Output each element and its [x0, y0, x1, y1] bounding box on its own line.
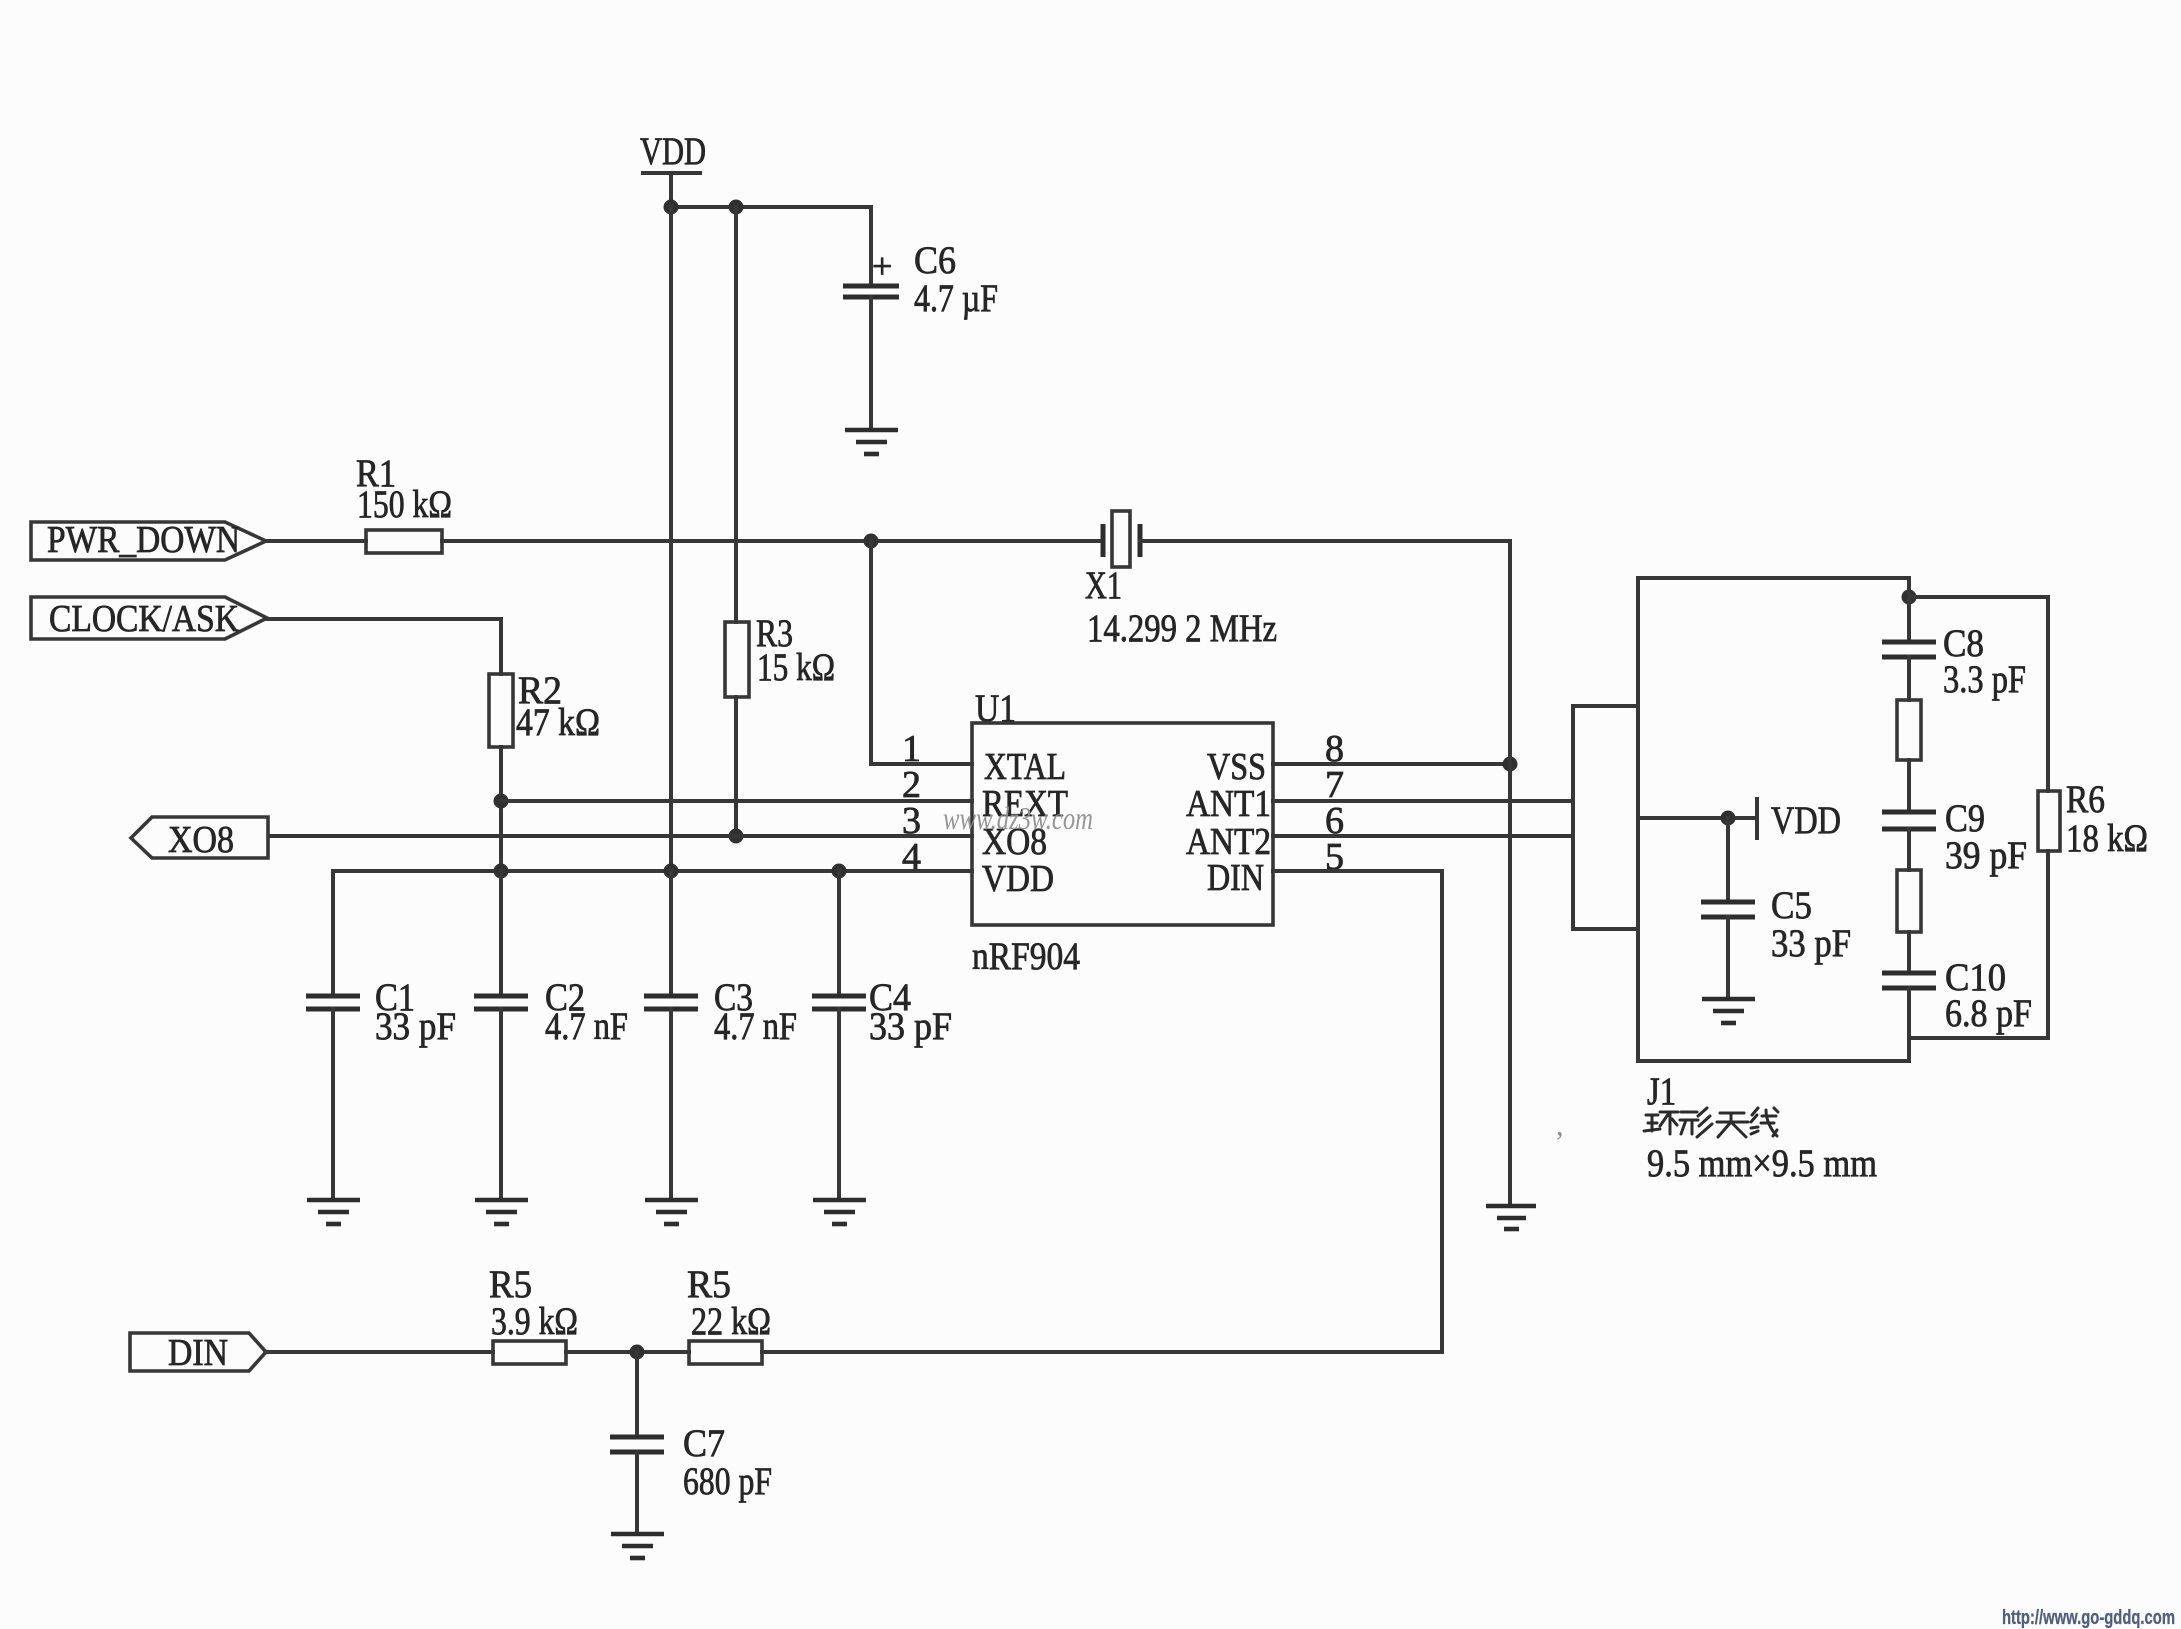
ground (X1/VSS rail) [1486, 1206, 1536, 1229]
wire REXT pin2 [501, 799, 972, 803]
wire XO8 pin3 [269, 834, 972, 838]
svg-text:14.299 2 MHz: 14.299 2 MHz [1087, 607, 1277, 650]
wire ANT1 pin7 to antenna stub [1273, 799, 1573, 803]
svg-text:J1: J1 [1647, 1070, 1676, 1113]
svg-text:33 pF: 33 pF [1771, 922, 1851, 965]
svg-text:VDD: VDD [640, 130, 706, 173]
ground (under C5) [1702, 999, 1755, 1023]
svg-text:C5: C5 [1771, 884, 1812, 927]
svg-text:nRF904: nRF904 [972, 935, 1080, 978]
svg-text:X1: X1 [1085, 564, 1122, 607]
svg-text:C7: C7 [683, 1422, 725, 1465]
wire VDD rail horizontal to C6 [671, 205, 871, 209]
capacitor C4 33pF [812, 871, 952, 1200]
capacitor C1 33pF [306, 871, 456, 1200]
ground (under C7) [611, 1534, 664, 1558]
capacitor C9 39pF [1882, 760, 2027, 877]
node junction antenna top right [1902, 590, 1917, 605]
svg-text:4.7 nF: 4.7 nF [714, 1005, 797, 1048]
svg-text:39 pF: 39 pF [1945, 834, 2027, 877]
svg-text:680 pF: 680 pF [683, 1460, 772, 1503]
svg-text:3.3 pF: 3.3 pF [1943, 658, 2026, 701]
wire VDD pin4 row [333, 869, 972, 873]
power symbol VDD (top) [640, 130, 706, 207]
ground (under C4) [813, 1200, 866, 1224]
ground (under C1) [307, 1200, 360, 1224]
svg-text:DIN: DIN [168, 1332, 228, 1374]
node junction C3 top [664, 864, 679, 879]
resistor R2 47k [489, 669, 600, 871]
node junction VDD rail left [664, 200, 679, 215]
resistor R3 15k [725, 207, 835, 836]
node CLOCK/ASK (input tag) [31, 597, 267, 640]
node junction at x871 on PWR_DOWN line [864, 534, 879, 549]
connector J1 loop antenna box [1638, 578, 1909, 1185]
wire VDD rail vertical down to pin4 line [669, 207, 673, 871]
svg-text:PWR_DOWN: PWR_DOWN [47, 519, 240, 561]
wire X1 right rail down to ground [1508, 541, 1512, 1206]
node junction VSS / X1 rail [1503, 757, 1518, 772]
node junction VDD rail mid [729, 200, 744, 215]
resistor R5 22k [687, 1263, 771, 1364]
capacitor C2 4.7nF [474, 871, 628, 1200]
node PWR_DOWN (input tag) [31, 519, 266, 561]
wire junction down to XTAL pin 1 [871, 541, 972, 764]
svg-text:XO8: XO8 [168, 819, 234, 861]
wire VDD feed inside J1 [1638, 816, 1757, 820]
svg-text:6.8 pF: 6.8 pF [1945, 992, 2032, 1035]
ground (under C6) [845, 430, 898, 454]
svg-text:VDD: VDD [1771, 799, 1841, 842]
svg-text:33 pF: 33 pF [375, 1005, 456, 1048]
resistor R1 150k [265, 452, 1101, 553]
IC U1 nRF904 [972, 687, 1273, 978]
capacitor C8 3.3pF [1882, 578, 2026, 701]
svg-text:VDD: VDD [982, 858, 1054, 900]
resistor R5 3.9k [489, 1263, 689, 1364]
svg-text:9.5 mm×9.5 mm: 9.5 mm×9.5 mm [1647, 1142, 1877, 1185]
inductor strip element (between C9 and C10) [1897, 870, 1921, 932]
svg-text:VSS: VSS [1207, 746, 1266, 788]
svg-text:+: + [872, 246, 892, 286]
node junction R3 to XO8 line [729, 829, 744, 844]
svg-text:R6: R6 [2066, 778, 2105, 821]
label 环形天线 (loop antenna, drawn strokes) [1644, 1108, 1778, 1137]
svg-text:http://www.go-gddq.com: http://www.go-gddq.com [2002, 1607, 2175, 1629]
svg-text:,: , [1556, 1109, 1564, 1142]
inductor strip element (between C8 and C9) [1897, 700, 1921, 760]
wire antenna feed stub [1573, 706, 1638, 929]
svg-text:4: 4 [902, 836, 921, 878]
wire DIN pin5 to bottom row [762, 871, 1442, 1352]
capacitor C3 4.7nF [644, 871, 797, 1200]
capacitor C10 6.8pF [1882, 932, 2032, 1061]
svg-text:XTAL: XTAL [984, 746, 1066, 788]
svg-text:DIN: DIN [1207, 857, 1264, 899]
svg-text:4.7 nF: 4.7 nF [545, 1005, 628, 1048]
capacitor C6 4.7uF [843, 207, 998, 430]
wire VSS pin8 to right rail [1273, 762, 1510, 766]
wire ANT2 pin6 to antenna stub [1273, 834, 1573, 838]
svg-text:18 kΩ: 18 kΩ [2066, 817, 2148, 860]
svg-text:150 kΩ: 150 kΩ [357, 483, 452, 526]
node junction C7 top [630, 1345, 645, 1360]
node junction C4 top [832, 864, 847, 879]
svg-text:C6: C6 [914, 239, 956, 282]
node XO8 (output tag, points left) [131, 817, 268, 861]
svg-text:3.9 kΩ: 3.9 kΩ [491, 1300, 578, 1343]
svg-text:ANT1: ANT1 [1186, 783, 1271, 825]
node DIN (input tag) [130, 1332, 266, 1374]
node junction R2 to REXT line [494, 794, 509, 809]
wire branch to R6 top [1909, 597, 2048, 791]
ground (under C3) [645, 1200, 698, 1224]
svg-text:33 pF: 33 pF [869, 1005, 952, 1048]
resistor R6 18k [1909, 778, 2148, 1038]
svg-text:CLOCK/ASK: CLOCK/ASK [49, 598, 239, 640]
svg-text:47 kΩ: 47 kΩ [516, 701, 600, 744]
svg-text:15 kΩ: 15 kΩ [757, 646, 835, 689]
capacitor C7 680pF [610, 1352, 772, 1534]
svg-text:22 kΩ: 22 kΩ [691, 1300, 771, 1343]
ground (under C2) [475, 1200, 528, 1224]
svg-text:4.7 µF: 4.7 µF [914, 277, 998, 320]
wire CLOCK/ASK to R2 [266, 619, 501, 674]
capacitor C5 33pF [1701, 818, 1851, 999]
node junction C5 top [1721, 811, 1736, 826]
wire DIN to R5a [265, 1350, 493, 1354]
node junction C2 top [494, 864, 509, 879]
power symbol VDD (inside J1) [1757, 799, 1841, 842]
crystal X1 14.2992MHz [1085, 511, 1510, 650]
svg-text:www.dz3w.com: www.dz3w.com [943, 800, 1093, 836]
